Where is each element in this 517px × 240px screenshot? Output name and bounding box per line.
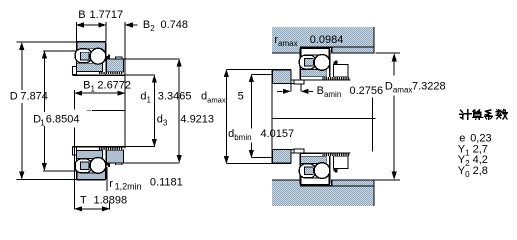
svg-text:D7.874: D7.874 (10, 90, 48, 102)
svg-text:B1.7717: B1.7717 (78, 9, 123, 21)
svg-text:D16.8504: D16.8504 (33, 114, 79, 128)
svg-text:Y02,8: Y02,8 (458, 165, 488, 179)
svg-text:B20.748: B20.748 (143, 19, 188, 33)
svg-text:B12.6772: B12.6772 (83, 79, 131, 93)
